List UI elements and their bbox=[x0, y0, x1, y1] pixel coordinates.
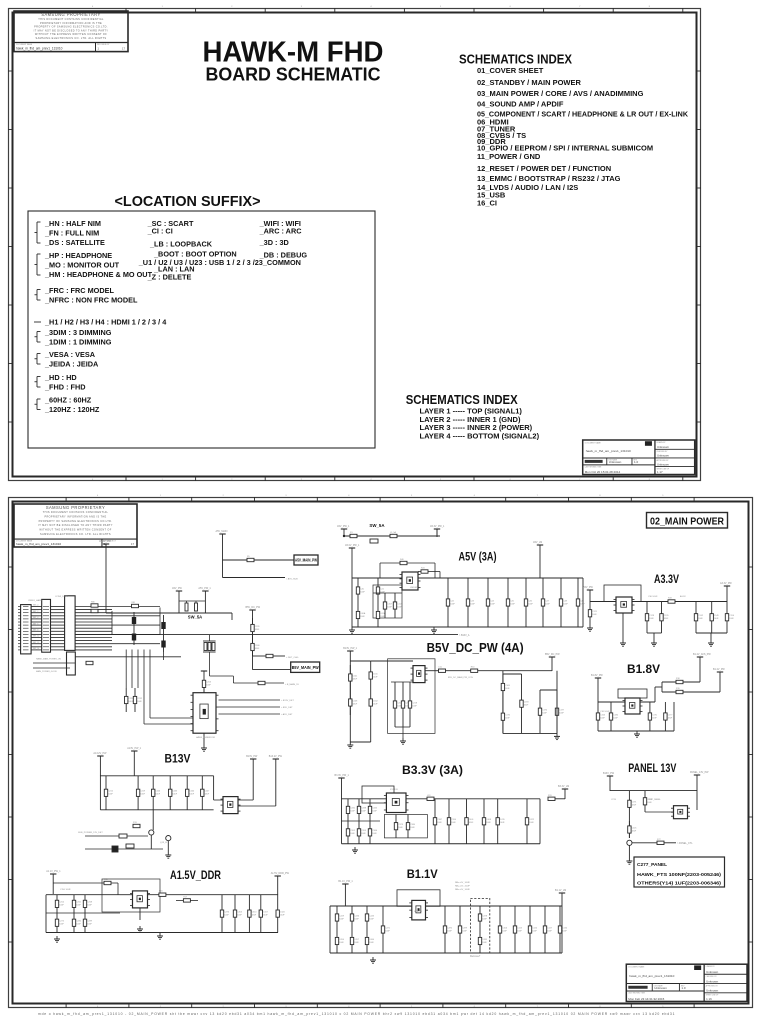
svg-text:DOCUMENT NAME: DOCUMENT NAME bbox=[16, 540, 33, 543]
svg-text:A1.5V_DDR: A1.5V_DDR bbox=[170, 868, 221, 882]
svg-text:NET_10: NET_10 bbox=[33, 636, 39, 638]
svg-text:SCHEMATICS INDEX: SCHEMATICS INDEX bbox=[406, 392, 518, 407]
svg-text:_JEIDA : JEIDA: _JEIDA : JEIDA bbox=[44, 360, 99, 369]
svg-text:SY8120: SY8120 bbox=[414, 911, 423, 913]
svg-text:NET_12: NET_12 bbox=[33, 642, 39, 644]
svg-text:12_RESET / POWER DET / FUNCTIO: 12_RESET / POWER DET / FUNCTION bbox=[477, 164, 611, 173]
svg-text:NET_4: NET_4 bbox=[33, 617, 38, 619]
svg-text:Mon Oct 20 15:01:28 2014: Mon Oct 20 15:01:28 2014 bbox=[585, 470, 621, 474]
svg-text:L5_5A: L5_5A bbox=[390, 531, 396, 534]
svg-text:_NFRC : NON FRC MODEL: _NFRC : NON FRC MODEL bbox=[44, 296, 138, 305]
svg-text:05_COMPONENT / SCART / HEADPH: 05_COMPONENT / SCART / HEADPHONE & LR OU… bbox=[477, 110, 689, 119]
svg-text:NET_2: NET_2 bbox=[33, 611, 38, 613]
svg-text:OTHERS(Y14) 1UF(2203-006346): OTHERS(Y14) 1UF(2203-006346) bbox=[637, 881, 721, 887]
svg-text:hawk_m_fhd_am_prev1_131010: hawk_m_fhd_am_prev1_131010 bbox=[16, 46, 63, 50]
svg-text:hawk_m_fhd_am_prev1_131010: hawk_m_fhd_am_prev1_131010 bbox=[629, 974, 674, 978]
svg-text:THIS DOCUMENT CONTAINS CONFIDE: THIS DOCUMENT CONTAINS CONFIDENTIAL bbox=[43, 511, 109, 514]
svg-text:NB=+0V_10UF: NB=+0V_10UF bbox=[455, 882, 470, 884]
svg-text:_1DIM : 1 DIMMING: _1DIM : 1 DIMMING bbox=[44, 338, 112, 347]
svg-text:> B13V_DET: > B13V_DET bbox=[281, 699, 294, 702]
svg-text:C30 10UF: C30 10UF bbox=[648, 596, 658, 598]
svg-text:B5V_DC_PW (4A): B5V_DC_PW (4A) bbox=[427, 640, 524, 655]
svg-text:_HM : HEADPHONE & MO OUT: _HM : HEADPHONE & MO OUT bbox=[44, 270, 153, 279]
svg-text:B1.2V_PW: B1.2V_PW bbox=[713, 668, 725, 671]
svg-text:> B13V_A: > B13V_A bbox=[459, 634, 470, 637]
svg-text:02_MAIN POWER: 02_MAIN POWER bbox=[650, 517, 725, 528]
svg-text:A5V_PW: A5V_PW bbox=[583, 586, 593, 589]
svg-text:HAWK_SUBMICOM: HAWK_SUBMICOM bbox=[196, 736, 215, 739]
svg-text:PROPRIETARY INFORMATION AND IS: PROPRIETARY INFORMATION AND IS THE bbox=[44, 516, 106, 519]
svg-text:04_SOUND AMP / APDIF: 04_SOUND AMP / APDIF bbox=[477, 100, 564, 109]
svg-text:02_STANDBY / MAIN POWER: 02_STANDBY / MAIN POWER bbox=[477, 78, 581, 87]
svg-text:Unknown: Unknown bbox=[706, 989, 718, 993]
svg-text:_DS : SATELLITE: _DS : SATELLITE bbox=[44, 238, 105, 247]
svg-text:_CI : CI: _CI : CI bbox=[147, 227, 173, 236]
svg-text:SW_5A: SW_5A bbox=[188, 615, 202, 620]
svg-text:1.0: 1.0 bbox=[681, 986, 686, 990]
svg-text:B5V_DC_PW: B5V_DC_PW bbox=[545, 653, 560, 656]
svg-text:A5.3V_PW: A5.3V_PW bbox=[99, 540, 111, 543]
svg-text:SAMSUNG PROPRIETARY: SAMSUNG PROPRIETARY bbox=[46, 505, 105, 510]
svg-text:<LOCATION SUFFIX>: <LOCATION SUFFIX> bbox=[115, 193, 261, 210]
svg-text:DRAWN BY: DRAWN BY bbox=[706, 965, 716, 968]
svg-text:01_COVER SHEET: 01_COVER SHEET bbox=[477, 66, 544, 75]
svg-text:B13.2V_PW: B13.2V_PW bbox=[269, 755, 283, 758]
svg-text:Unknown: Unknown bbox=[706, 970, 718, 974]
svg-text:B1.1V: B1.1V bbox=[407, 867, 438, 881]
svg-text:SAMSUNG ELECTRONICS CO. LTD. A: SAMSUNG ELECTRONICS CO. LTD. ALL RIGHTS bbox=[36, 37, 107, 40]
svg-text:THIS DOCUMENT CONTAINS CONFIDE: THIS DOCUMENT CONTAINS CONFIDENTIAL bbox=[38, 18, 104, 21]
svg-text:B5V_MAIN_PW: B5V_MAIN_PW bbox=[292, 665, 319, 670]
svg-text:B1.8V: B1.8V bbox=[627, 662, 660, 676]
svg-text:NB=+0V_10UF: NB=+0V_10UF bbox=[455, 886, 470, 888]
svg-text:_ARC : ARC: _ARC : ARC bbox=[259, 227, 303, 236]
svg-text:B13V_PW: B13V_PW bbox=[246, 755, 258, 758]
svg-text:PANEL_13V_PW: PANEL_13V_PW bbox=[690, 771, 709, 774]
svg-text:A1.1V_PW_1: A1.1V_PW_1 bbox=[46, 870, 61, 873]
svg-text:DOCUMENT NAME: DOCUMENT NAME bbox=[628, 966, 645, 969]
svg-text:Unknown: Unknown bbox=[654, 986, 667, 990]
svg-text:mde o hawk_m_fhd_am_prev1_1310: mde o hawk_m_fhd_am_prev1_131010 - 02_MA… bbox=[38, 1012, 675, 1016]
svg-text:_FN : FULL NIM: _FN : FULL NIM bbox=[44, 229, 99, 238]
svg-text:03_MAIN POWER / CORE / AVS / A: 03_MAIN POWER / CORE / AVS / ANADIMMING bbox=[477, 89, 644, 98]
svg-text:HAWK_FTS 100NF(2203-005246): HAWK_FTS 100NF(2203-005246) bbox=[637, 872, 721, 878]
svg-text:DOCUMENT NAME: DOCUMENT NAME bbox=[585, 441, 602, 444]
svg-text:WITHOUT THE EXPRESS WRITTEN CO: WITHOUT THE EXPRESS WRITTEN CONSENT OF bbox=[35, 33, 107, 36]
svg-text:LAYER 4 ----- BOTTOM (SIGNAL2): LAYER 4 ----- BOTTOM (SIGNAL2) bbox=[420, 432, 540, 441]
svg-text:CON3_DCIN: CON3_DCIN bbox=[55, 596, 68, 598]
svg-text:_HN : HALF NIM: _HN : HALF NIM bbox=[44, 219, 101, 228]
svg-text:A5V_PW_1: A5V_PW_1 bbox=[198, 587, 211, 590]
svg-text:_60HZ : 60HZ: _60HZ : 60HZ bbox=[44, 396, 92, 405]
svg-text:> A5V_SUB: > A5V_SUB bbox=[286, 578, 298, 581]
svg-text:B13V_PW: B13V_PW bbox=[603, 772, 615, 775]
svg-text:B3.3V (3A): B3.3V (3A) bbox=[402, 763, 463, 777]
svg-text:APPROVED BY: APPROVED BY bbox=[706, 984, 719, 987]
svg-text:B3.3V_PW_1: B3.3V_PW_1 bbox=[335, 774, 350, 777]
svg-text:Q13_B: Q13_B bbox=[160, 842, 167, 844]
svg-text:C276: C276 bbox=[611, 799, 617, 801]
svg-text:A5V_PW: A5V_PW bbox=[172, 587, 182, 590]
svg-text:IT MAY NOT BE DISCLOSED TO ANY: IT MAY NOT BE DISCLOSED TO ANY THIRD PAR… bbox=[38, 524, 113, 527]
svg-text:CN801_HAWK: CN801_HAWK bbox=[28, 599, 43, 602]
svg-text:WITHOUT THE EXPRESS WRITTEN CO: WITHOUT THE EXPRESS WRITTEN CONSENT OF bbox=[39, 529, 111, 532]
svg-text:NB=+0V_10UF: NB=+0V_10UF bbox=[455, 889, 470, 891]
svg-text:_HP : HEADPHONE: _HP : HEADPHONE bbox=[44, 251, 112, 260]
svg-text:LAST REVISED TIME: LAST REVISED TIME bbox=[628, 992, 645, 995]
svg-text:PROPERTY OF SAMSUNG ELECTRONIC: PROPERTY OF SAMSUNG ELECTRONICS CO.LTD. bbox=[39, 520, 113, 523]
svg-text:1 16: 1 16 bbox=[706, 997, 712, 1001]
svg-text:SAMSUNG ELECTRONICS CO. LTD. A: SAMSUNG ELECTRONICS CO. LTD. ALL RIGHTS bbox=[40, 533, 111, 536]
svg-text:A5.3V_PW_1: A5.3V_PW_1 bbox=[430, 525, 445, 528]
svg-text:B3.3V_LM: B3.3V_LM bbox=[558, 785, 569, 788]
svg-text:_Z : DELETE: _Z : DELETE bbox=[147, 273, 192, 282]
svg-text:SY8120: SY8120 bbox=[390, 789, 399, 791]
svg-text:A5.0V_PW_1: A5.0V_PW_1 bbox=[345, 544, 360, 547]
svg-text:Remove?: Remove? bbox=[470, 955, 481, 958]
svg-text:LM1085: LM1085 bbox=[410, 587, 419, 589]
svg-text:1 17: 1 17 bbox=[657, 470, 663, 474]
svg-text:A13.2V_PW: A13.2V_PW bbox=[93, 752, 107, 755]
svg-text:B1.8V_PW: B1.8V_PW bbox=[591, 674, 603, 677]
svg-text:B5V_DC_PW: B5V_DC_PW bbox=[246, 606, 261, 609]
svg-text:> B5V_DET: > B5V_DET bbox=[281, 706, 293, 709]
svg-text:LAST REVISED TIME: LAST REVISED TIME bbox=[585, 465, 602, 468]
svg-text:_LB : LOOPBACK: _LB : LOOPBACK bbox=[149, 240, 213, 249]
svg-text:_120HZ : 120HZ: _120HZ : 120HZ bbox=[44, 405, 100, 414]
svg-text:> PANEL_CTL: > PANEL_CTL bbox=[677, 842, 693, 845]
svg-text:NET_8: NET_8 bbox=[33, 630, 38, 632]
svg-text:REV ISSUE DT: REV ISSUE DT bbox=[97, 44, 110, 46]
svg-text:C277_PANEL: C277_PANEL bbox=[637, 862, 667, 868]
svg-text:A3.3V: A3.3V bbox=[654, 572, 679, 586]
svg-text:A5V_MAIN: A5V_MAIN bbox=[216, 530, 228, 533]
svg-text:C150 10UF: C150 10UF bbox=[60, 889, 71, 891]
svg-text:13_EMMC / BOOTSTRAP / RS232 /: 13_EMMC / BOOTSTRAP / RS232 / JTAG bbox=[477, 174, 621, 183]
svg-text:CHECKED BY: CHECKED BY bbox=[706, 976, 718, 978]
svg-text:Unknown: Unknown bbox=[657, 445, 669, 449]
svg-text:_VESA : VESA: _VESA : VESA bbox=[44, 350, 96, 359]
svg-text:BOARD SCHEMATIC: BOARD SCHEMATIC bbox=[206, 64, 381, 85]
svg-text:> B_MAIN_5V: > B_MAIN_5V bbox=[285, 683, 299, 686]
svg-text:1.0: 1.0 bbox=[634, 460, 639, 464]
svg-text:_MO : MONITOR OUT: _MO : MONITOR OUT bbox=[44, 261, 120, 270]
svg-text:A3.3V_PW: A3.3V_PW bbox=[720, 582, 732, 585]
svg-text:B1.1V_PW_1: B1.1V_PW_1 bbox=[338, 880, 353, 883]
svg-text:A5V_LM: A5V_LM bbox=[533, 541, 542, 544]
svg-text:_DB : DEBUG: _DB : DEBUG bbox=[259, 251, 308, 260]
svg-text:SW_5A: SW_5A bbox=[369, 523, 385, 528]
svg-text:> A5V_DET: > A5V_DET bbox=[281, 713, 293, 716]
svg-text:A13V_PW_1: A13V_PW_1 bbox=[127, 747, 141, 750]
svg-text:_3DIM : 3 DIMMING: _3DIM : 3 DIMMING bbox=[44, 328, 112, 337]
svg-text:Unknown: Unknown bbox=[657, 462, 669, 466]
svg-text:NET_14: NET_14 bbox=[33, 648, 39, 650]
svg-text:B13V: B13V bbox=[165, 752, 191, 766]
svg-text:B1.2V_AVS_PW: B1.2V_AVS_PW bbox=[693, 653, 711, 656]
svg-text:Unknown: Unknown bbox=[609, 460, 622, 464]
svg-text:HAWK_MAIN_POWER_ON: HAWK_MAIN_POWER_ON bbox=[36, 658, 61, 661]
svg-text:_FHD : FHD: _FHD : FHD bbox=[44, 383, 86, 392]
svg-text:PROPERTY OF SAMSUNG ELECTRONIC: PROPERTY OF SAMSUNG ELECTRONICS CO.LTD. bbox=[34, 26, 108, 29]
svg-text:A5V_PW_1: A5V_PW_1 bbox=[337, 525, 350, 528]
svg-text:_FRC : FRC MODEL: _FRC : FRC MODEL bbox=[44, 286, 114, 295]
svg-text:Mon Feb 23 14:31:32 2015: Mon Feb 23 14:31:32 2015 bbox=[628, 997, 664, 1001]
svg-text:A3.3V: A3.3V bbox=[680, 595, 686, 598]
svg-text:_H1 / H2 / H3 / H4 : HDMI 1: _H1 / H2 / H3 / H4 : HDMI 1 / 2 / 3 / 4 bbox=[44, 318, 167, 327]
svg-text:A5V_MAIN_PW: A5V_MAIN_PW bbox=[295, 558, 317, 563]
svg-text:Unknown: Unknown bbox=[657, 454, 669, 458]
svg-text:> DET_CHG: > DET_CHG bbox=[286, 656, 299, 659]
svg-text:SAMSUNG PROPRIETARY: SAMSUNG PROPRIETARY bbox=[41, 12, 100, 17]
svg-text:DOCUMENT NAME: DOCUMENT NAME bbox=[16, 43, 33, 46]
svg-text:IT MAY NOT BE DISCLOSED TO ANY: IT MAY NOT BE DISCLOSED TO ANY THIRD PAR… bbox=[34, 29, 109, 32]
svg-text:B5V_DC_MAIN_PW_CON: B5V_DC_MAIN_PW_CON bbox=[448, 676, 473, 679]
svg-text:Unknown: Unknown bbox=[706, 979, 718, 983]
svg-text:SCHEMATICS INDEX: SCHEMATICS INDEX bbox=[459, 52, 572, 67]
svg-text:16_CI: 16_CI bbox=[477, 199, 497, 208]
svg-text:hawk_m_fhd_am_prev1_131010: hawk_m_fhd_am_prev1_131010 bbox=[586, 449, 631, 453]
svg-text:PROPRIETARY INFORMATION AND IS: PROPRIETARY INFORMATION AND IS THE bbox=[40, 22, 102, 25]
svg-text:C277_PANEL: C277_PANEL bbox=[648, 798, 662, 801]
svg-text:A1.5V_DDR_PW: A1.5V_DDR_PW bbox=[271, 872, 290, 875]
svg-text:B1.1V_LM: B1.1V_LM bbox=[555, 889, 566, 892]
svg-text:_3D : 3D: _3D : 3D bbox=[259, 238, 289, 247]
svg-text:NET_6: NET_6 bbox=[33, 623, 38, 625]
svg-text:11_POWER / GND: 11_POWER / GND bbox=[477, 152, 541, 161]
svg-text:C40A: C40A bbox=[360, 612, 366, 615]
svg-text:PANEL 13V: PANEL 13V bbox=[628, 761, 676, 775]
svg-text:C18 10UF: C18 10UF bbox=[600, 711, 610, 713]
svg-text:A5V (3A): A5V (3A) bbox=[459, 550, 497, 564]
svg-text:MAIN_POWER_GOOD: MAIN_POWER_GOOD bbox=[36, 670, 57, 673]
svg-text:B13V_PW_1: B13V_PW_1 bbox=[343, 647, 357, 650]
svg-text:SUB_POWER_13V_DET: SUB_POWER_13V_DET bbox=[78, 832, 103, 834]
svg-text:_HD : HD: _HD : HD bbox=[44, 373, 77, 382]
svg-text:DRAWN BY: DRAWN BY bbox=[656, 441, 666, 444]
svg-text:NET_0: NET_0 bbox=[33, 605, 38, 607]
